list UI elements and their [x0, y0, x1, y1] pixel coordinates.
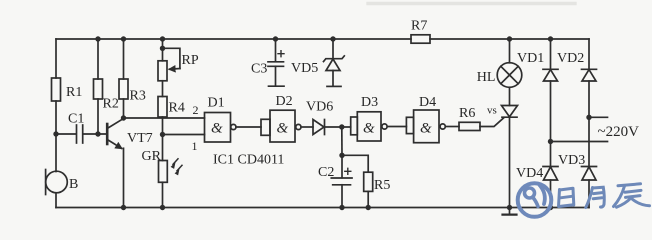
wire junction to R5 — [342, 155, 368, 172]
wire VD1 to AC node — [550, 81, 552, 166]
svg-text:D1: D1 — [208, 96, 225, 111]
wire C1 to base — [83, 133, 106, 135]
wire D1 to D2 — [236, 126, 261, 128]
svg-text:&: & — [277, 121, 289, 137]
nand gate D3 — [351, 95, 387, 141]
resistor R2 — [94, 39, 119, 134]
wire C1 node to microphone — [55, 134, 57, 172]
svg-text:IC1 CD4011: IC1 CD4011 — [213, 153, 284, 168]
wire top rail right of R7 — [430, 38, 589, 40]
wire VD2 to AC node — [588, 81, 590, 166]
potentiometer RP — [158, 48, 199, 81]
svg-text:VD5: VD5 — [291, 61, 318, 76]
svg-text:R4: R4 — [169, 101, 185, 116]
svg-text:C1: C1 — [68, 112, 84, 127]
lamp HL — [477, 63, 522, 88]
photoresistor GR — [142, 149, 183, 182]
resistor R1 — [52, 78, 83, 101]
wire VD6 to D3 — [325, 126, 351, 128]
resistor R6 — [459, 106, 480, 131]
svg-text:D3: D3 — [361, 95, 378, 110]
svg-text:HL: HL — [477, 70, 496, 85]
svg-text:B: B — [69, 177, 78, 192]
wire AC right lead — [589, 116, 608, 118]
diode VD1 — [517, 39, 558, 81]
diode VD6 — [306, 100, 333, 135]
wire emitter to bottom rail — [123, 148, 125, 207]
wire AC left lead — [551, 141, 608, 143]
wire RP to R4 — [162, 81, 164, 97]
wire R6 to VS gate — [480, 118, 504, 127]
wire GR to bottom rail — [162, 182, 164, 207]
svg-text:&: & — [420, 121, 432, 137]
wire D4 to R6 — [446, 126, 459, 128]
svg-text:VD2: VD2 — [557, 51, 584, 66]
wire left rail upper — [55, 39, 57, 78]
node VS bottom — [507, 205, 512, 210]
wire R4 to GR (crosses pin2 wire) — [162, 117, 164, 161]
node RP top rail — [160, 36, 165, 41]
ground — [503, 208, 517, 215]
node R3 top — [121, 36, 126, 41]
wire C1 node to capacitor — [56, 133, 76, 135]
node pin1 junction — [160, 132, 165, 137]
svg-text:2: 2 — [193, 103, 199, 117]
svg-text:D4: D4 — [419, 95, 436, 110]
svg-text:R7: R7 — [411, 19, 427, 34]
svg-text:VD1: VD1 — [517, 51, 544, 66]
watermark logo ring — [518, 183, 552, 217]
wire collector to D1 pin 2 — [124, 117, 205, 119]
node AC right — [586, 115, 591, 120]
wire rail to RP — [162, 39, 164, 61]
node R2 top — [95, 36, 100, 41]
node AC left — [548, 139, 553, 144]
svg-text:VD6: VD6 — [306, 100, 333, 115]
capacitor C2 — [318, 155, 352, 207]
wire top rail left of R7 — [56, 38, 411, 40]
wire pin1 junction to D1 pin 1 — [163, 134, 205, 136]
svg-text:C2: C2 — [318, 165, 334, 180]
resistor R7 — [411, 19, 430, 44]
node collector junction — [121, 115, 126, 120]
node VD5 top — [330, 36, 335, 41]
thyristor VS — [487, 105, 518, 118]
capacitor C1 — [68, 112, 84, 144]
wire HL to VS — [509, 87, 511, 105]
node R2 bottom junction — [95, 131, 100, 136]
svg-text:vs: vs — [487, 105, 497, 117]
wire microphone to bottom rail — [55, 193, 57, 208]
wire D2 to VD6 — [301, 126, 313, 128]
node C3 top — [273, 36, 278, 41]
node C2 bottom — [339, 205, 344, 210]
resistor R3 — [119, 39, 146, 118]
watermark text 日月辰 — [559, 184, 650, 208]
svg-text:R3: R3 — [130, 89, 146, 104]
wire rail to HL — [509, 39, 511, 63]
node C1 junction — [53, 131, 58, 136]
faint scan line — [368, 2, 575, 5]
svg-text:C3: C3 — [251, 62, 267, 77]
svg-text:RP: RP — [182, 53, 199, 68]
svg-text:R1: R1 — [66, 85, 82, 100]
node GR bottom — [160, 205, 165, 210]
svg-text:GR: GR — [142, 149, 162, 164]
diode VD3 — [558, 153, 597, 208]
resistor R5 — [364, 172, 391, 207]
nand gate D1 — [205, 96, 236, 143]
node C2/R5 junction — [339, 153, 344, 158]
node R5 bottom — [366, 205, 371, 210]
svg-text:VD3: VD3 — [558, 153, 585, 168]
capacitor C3 — [251, 39, 284, 86]
node VD4 bottom — [548, 205, 553, 210]
node emitter bottom — [121, 205, 126, 210]
wire D3 to D4 — [387, 126, 406, 128]
svg-text:VT7: VT7 — [127, 131, 153, 146]
node VD1 top — [548, 36, 553, 41]
nand gate D4 — [406, 95, 445, 143]
microphone B — [46, 170, 79, 195]
svg-text:&: & — [211, 121, 223, 137]
svg-text:R2: R2 — [103, 97, 119, 112]
zener diode VD5 — [291, 39, 344, 86]
svg-text:VD4: VD4 — [516, 166, 543, 181]
wire bottom rail — [56, 207, 589, 209]
svg-text:1: 1 — [192, 139, 198, 153]
svg-text:R5: R5 — [374, 178, 390, 193]
svg-text:~220V: ~220V — [598, 124, 640, 140]
wire VS to bottom rail — [509, 117, 511, 207]
node C2 branch — [339, 124, 344, 129]
wire C2 node down — [341, 127, 343, 155]
svg-text:&: & — [363, 121, 375, 137]
wire R1 to C1 node — [55, 101, 57, 134]
svg-text:D2: D2 — [276, 94, 293, 109]
svg-text:R6: R6 — [459, 106, 475, 121]
node RP wiper tie — [160, 46, 165, 51]
nand gate D2 — [261, 94, 301, 142]
resistor R4 — [158, 97, 185, 118]
diode VD2 — [557, 39, 597, 81]
diode VD4 — [516, 166, 558, 208]
transistor VT7 — [107, 119, 152, 149]
node HL top — [507, 36, 512, 41]
